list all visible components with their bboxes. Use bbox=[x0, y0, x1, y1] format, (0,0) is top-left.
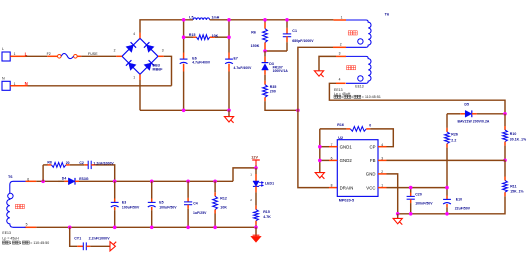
svg-text:ES3G: ES3G bbox=[79, 177, 89, 181]
svg-text:680pF/1000V: 680pF/1000V bbox=[292, 39, 314, 43]
svg-text:F2: F2 bbox=[47, 52, 51, 56]
svg-text:CP: CP bbox=[369, 145, 375, 150]
junction R35 to drain line bbox=[296, 109, 300, 113]
svg-text:DRAIN: DRAIN bbox=[340, 185, 354, 190]
svg-text:R15: R15 bbox=[263, 210, 270, 214]
junction E5 bottom bbox=[150, 226, 154, 230]
resistor R15 4.7K (LED) bbox=[254, 206, 272, 228]
wire fuse to bridge bbox=[81, 55, 116, 57]
svg-text:GND: GND bbox=[366, 172, 376, 177]
svg-text:R16: R16 bbox=[337, 123, 344, 127]
capacitor CY1 2.2nF/1000V (Y-cap) bbox=[70, 227, 110, 250]
U2 pin stubs bbox=[329, 143, 387, 188]
svg-text:L: L bbox=[2, 47, 4, 51]
wire bridge bottom to DC- rail bbox=[139, 80, 141, 110]
svg-text:4: 4 bbox=[381, 143, 383, 147]
junction R15 right bbox=[227, 35, 231, 39]
svg-text:T6: T6 bbox=[8, 175, 13, 179]
wire U2 GND pin to rail bbox=[387, 174, 398, 214]
wire node B vertical (E7 column) bbox=[228, 20, 230, 53]
label feedback winding (CJK) bbox=[347, 66, 356, 70]
svg-text:4: 4 bbox=[133, 32, 135, 36]
resistor R12 10K bbox=[213, 181, 228, 227]
resistor R11 15K_1% bbox=[447, 160, 524, 214]
svg-text:30.1K_1%: 30.1K_1% bbox=[510, 138, 526, 142]
svg-text:GND1: GND1 bbox=[340, 145, 353, 150]
junction D5 cathode node bbox=[503, 112, 507, 116]
svg-text:5: 5 bbox=[26, 222, 28, 226]
svg-text:Lp = 45uH: Lp = 45uH bbox=[2, 237, 19, 241]
inductor L5 1mH bbox=[189, 15, 219, 19]
resistor R6 150K bbox=[251, 20, 268, 51]
svg-text:20: 20 bbox=[66, 161, 70, 165]
connector P1 (L input terminal) bbox=[2, 47, 16, 61]
wire output to 12V node bbox=[233, 168, 256, 181]
svg-text:10K: 10K bbox=[212, 34, 219, 38]
svg-text:R6: R6 bbox=[251, 30, 256, 34]
svg-text:= 110:45:51: = 110:45:51 bbox=[362, 95, 381, 99]
junction E10 top (VCC) bbox=[445, 186, 449, 190]
junction GND2 bbox=[318, 159, 322, 163]
svg-text:R15: R15 bbox=[189, 33, 196, 37]
ground secondary (power) bbox=[251, 227, 261, 242]
wire pin6 line bbox=[36, 180, 58, 182]
svg-text:MB6F: MB6F bbox=[153, 68, 164, 72]
wire T6 pin2 to U2 DRAIN bbox=[298, 47, 346, 187]
svg-text:R11: R11 bbox=[510, 184, 516, 188]
bridge pin stubs bbox=[116, 33, 163, 80]
capacitor E6 4.7uF/400V bbox=[180, 53, 211, 111]
svg-text:1: 1 bbox=[381, 184, 383, 188]
svg-text:3: 3 bbox=[339, 52, 341, 56]
capacitor E10 22uF/50V bbox=[443, 188, 471, 214]
svg-text:200: 200 bbox=[270, 90, 276, 94]
svg-text:22uF/50V: 22uF/50V bbox=[455, 206, 471, 210]
svg-text:D4: D4 bbox=[62, 177, 67, 181]
op-amp U2 MP020-5 body bbox=[337, 136, 378, 203]
svg-text:BAV21W 200V/0.2A: BAV21W 200V/0.2A bbox=[458, 119, 490, 123]
junction C1 top bbox=[285, 18, 289, 22]
resistor R16 0 (GND to CP) bbox=[320, 123, 394, 147]
diode D4 ES3G bbox=[58, 177, 115, 185]
svg-text:E7: E7 bbox=[234, 56, 238, 60]
wire T6 pin3 to ground bbox=[319, 56, 336, 70]
svg-text:E10: E10 bbox=[456, 197, 462, 201]
wire bridge right to N line bbox=[164, 56, 172, 86]
wire bridge top to +rail bbox=[140, 20, 193, 33]
capacitor E5 100uF/50V bbox=[148, 181, 177, 227]
wire clamp bus bbox=[265, 50, 287, 52]
svg-text:6: 6 bbox=[27, 177, 29, 181]
wire N pin stub bbox=[10, 85, 27, 87]
svg-text:1.2nF/1000V: 1.2nF/1000V bbox=[93, 161, 114, 165]
svg-text:2: 2 bbox=[114, 48, 116, 52]
transformer info text bbox=[334, 88, 381, 99]
diode D5 BAV21W bbox=[447, 103, 505, 124]
junction R12 top bbox=[213, 180, 217, 184]
svg-text:R12: R12 bbox=[220, 197, 227, 201]
junction FB divider bbox=[503, 159, 507, 163]
svg-text:C20: C20 bbox=[415, 193, 422, 197]
wire L pin stub bbox=[10, 55, 25, 57]
svg-text:2: 2 bbox=[381, 170, 383, 174]
svg-text:12V: 12V bbox=[251, 156, 258, 160]
transformer T6 feedback winding bbox=[336, 52, 371, 89]
wire DC- rail bbox=[140, 109, 229, 111]
junction clamp node bbox=[263, 49, 267, 53]
capacitor E7 4.7uF/400V bbox=[225, 53, 252, 111]
svg-text:0: 0 bbox=[369, 124, 371, 128]
svg-text:N: N bbox=[2, 77, 5, 81]
net label N bbox=[25, 81, 28, 86]
svg-text:15K_1%: 15K_1% bbox=[510, 190, 523, 194]
junction 12V node bbox=[254, 166, 258, 170]
svg-text:4.7uF/400V: 4.7uF/400V bbox=[192, 60, 211, 64]
junction E3 bottom bbox=[113, 226, 117, 230]
junction E3 top bbox=[113, 180, 117, 184]
svg-text:1: 1 bbox=[250, 173, 252, 177]
svg-text:R10: R10 bbox=[510, 132, 517, 136]
junction GND1 bbox=[318, 145, 322, 149]
svg-text:EE13: EE13 bbox=[355, 85, 363, 89]
svg-text:E3: E3 bbox=[122, 201, 126, 205]
junction C4 top bbox=[186, 180, 190, 184]
svg-text:R8: R8 bbox=[47, 161, 52, 165]
svg-text:DB3: DB3 bbox=[153, 64, 160, 68]
wire T6 pin4 to D5 node bbox=[329, 83, 505, 114]
svg-text:1uF/25V: 1uF/25V bbox=[193, 211, 207, 215]
resistor R8 20 (snubber) bbox=[43, 161, 70, 182]
svg-text:T6: T6 bbox=[385, 12, 390, 16]
junction C20 bottom bbox=[409, 212, 413, 216]
resistor R26 2.2 bbox=[445, 114, 458, 188]
wire VCC gnd rail bbox=[398, 213, 447, 215]
capacitor C1 680pF/1000V bbox=[283, 20, 314, 51]
svg-text:FUSE: FUSE bbox=[88, 52, 98, 56]
svg-text:C2: C2 bbox=[79, 161, 84, 165]
svg-text:N: N bbox=[25, 81, 28, 86]
svg-text:4.7K: 4.7K bbox=[263, 215, 271, 219]
svg-text:E5: E5 bbox=[159, 201, 163, 205]
wire secondary gnd rail bbox=[36, 226, 256, 228]
junction snubber left bbox=[41, 180, 45, 184]
LED LED1 bbox=[250, 168, 274, 206]
ground feedback winding (chassis) bbox=[314, 71, 323, 77]
svg-text:1000V/1A: 1000V/1A bbox=[273, 69, 289, 73]
svg-text:10K: 10K bbox=[220, 205, 227, 209]
junction C20 top bbox=[409, 186, 413, 190]
svg-text:7: 7 bbox=[331, 143, 333, 147]
svg-text:1: 1 bbox=[341, 15, 343, 19]
svg-text:6: 6 bbox=[331, 157, 333, 161]
svg-text:VCC: VCC bbox=[366, 185, 375, 190]
svg-text:GND2: GND2 bbox=[340, 158, 353, 163]
wire L to fuse bbox=[26, 55, 48, 57]
svg-text:MP020-5: MP020-5 bbox=[339, 199, 354, 203]
svg-text:8: 8 bbox=[331, 184, 333, 188]
ground VCC section (chassis) bbox=[393, 214, 402, 225]
svg-text:L5: L5 bbox=[189, 15, 193, 19]
svg-text:2.2: 2.2 bbox=[451, 138, 456, 142]
bridge rectifier DB3 MB6F bbox=[114, 32, 164, 80]
label secondary winding (CJK) bbox=[15, 204, 24, 208]
junction R15 left bbox=[182, 35, 186, 39]
resistor R15 10K (parallel with L5) bbox=[184, 33, 229, 39]
ground U2 gnd bus (chassis) bbox=[315, 173, 324, 179]
capacitor C2 1.2nF/1000V (snubber) bbox=[70, 161, 115, 182]
svg-text:100uF/50V: 100uF/50V bbox=[159, 206, 177, 210]
svg-text:1mH: 1mH bbox=[212, 16, 220, 20]
svg-text:3: 3 bbox=[162, 48, 164, 52]
wire node A vertical (E6 column) bbox=[183, 20, 185, 53]
svg-text:EE13: EE13 bbox=[2, 231, 11, 235]
svg-text:100uF/50V: 100uF/50V bbox=[122, 206, 140, 210]
junction A top bbox=[182, 18, 186, 22]
svg-text:= 110:45:50: = 110:45:50 bbox=[30, 241, 49, 245]
junction rail gnd bbox=[396, 212, 400, 216]
svg-text:R35: R35 bbox=[270, 85, 277, 89]
label primary winding (CJK) bbox=[348, 31, 357, 35]
transformer T6 secondary winding bbox=[7, 175, 37, 227]
junction CY1 bbox=[68, 226, 72, 230]
svg-text:R26: R26 bbox=[451, 133, 458, 137]
svg-text:2: 2 bbox=[250, 198, 252, 202]
svg-text:4: 4 bbox=[339, 77, 341, 81]
svg-text:U2: U2 bbox=[338, 136, 343, 140]
junction R6 top bbox=[263, 18, 267, 22]
ground primary (chassis) bbox=[224, 110, 233, 122]
wire FB to divider bbox=[387, 159, 506, 161]
svg-text:FB: FB bbox=[370, 158, 376, 163]
wire GND1/GND2 bus bbox=[320, 129, 329, 173]
connector P2 (N input terminal) bbox=[2, 77, 16, 91]
net label L bbox=[25, 52, 28, 57]
junction LED gnd bbox=[254, 226, 258, 230]
svg-text:3: 3 bbox=[381, 157, 383, 161]
resistor R35 200 bbox=[263, 81, 298, 111]
svg-text:2.2nF/1000V: 2.2nF/1000V bbox=[89, 237, 111, 241]
svg-text:D5: D5 bbox=[464, 103, 469, 107]
wire N to bridge bbox=[28, 85, 172, 87]
transformer info text 2 bbox=[2, 231, 49, 245]
wire output line bbox=[115, 180, 233, 182]
capacitor C4 1uF/25V bbox=[184, 181, 207, 227]
svg-text:LED1: LED1 bbox=[265, 181, 274, 185]
capacitor C20 100nF/50V bbox=[407, 188, 434, 214]
fuse F2 bbox=[47, 52, 99, 59]
junction R12 bottom bbox=[213, 226, 217, 230]
junction E5 top bbox=[150, 180, 154, 184]
transformer T6 primary winding bbox=[333, 12, 389, 47]
capacitor E3 100uF/50V bbox=[111, 181, 140, 227]
svg-text:100nF/50V: 100nF/50V bbox=[415, 202, 433, 206]
wire VCC line bbox=[387, 187, 448, 189]
svg-text:C4: C4 bbox=[193, 202, 198, 206]
junction E6 bottom bbox=[182, 109, 186, 113]
svg-text:CY1: CY1 bbox=[74, 237, 81, 241]
svg-text:2: 2 bbox=[340, 42, 342, 46]
power 12V bbox=[251, 156, 259, 168]
svg-text:E6: E6 bbox=[192, 57, 196, 61]
wire +rail L5 to C1 to T6 pin1 bbox=[210, 19, 334, 21]
svg-text:1: 1 bbox=[133, 75, 135, 79]
svg-text:C1: C1 bbox=[292, 29, 297, 33]
junction B top bbox=[227, 18, 231, 22]
junction E10 bottom bbox=[445, 212, 449, 216]
ground CY1 (chassis, rotated) bbox=[110, 242, 116, 251]
diode D3 FR107 bbox=[262, 51, 289, 81]
junction C4 bottom bbox=[186, 226, 190, 230]
resistor R10 30.1K_1% bbox=[503, 114, 527, 161]
svg-text:150K: 150K bbox=[251, 44, 260, 48]
svg-text:4.7uF/400V: 4.7uF/400V bbox=[234, 66, 253, 70]
junction E7 bottom / gnd bbox=[227, 109, 231, 113]
